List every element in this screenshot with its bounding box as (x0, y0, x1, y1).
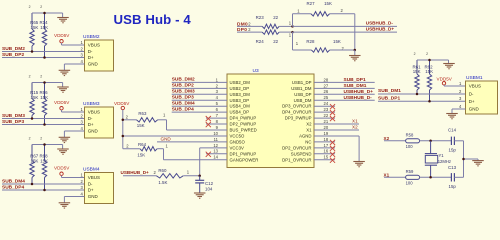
svg-text:NC: NC (305, 139, 311, 144)
wire SUB_DM2 to U3 pin 1 (172, 81, 227, 83)
ground (472, 161, 484, 166)
svg-text:DP2_PWRUP: DP2_PWRUP (230, 122, 257, 127)
net label SUB_DM1 (U3 pin 27) (344, 83, 367, 89)
svg-text:20: 20 (324, 125, 329, 130)
svg-text:X1: X1 (384, 172, 390, 177)
net label USBHUB_D- (366, 21, 394, 26)
wire SUB_DP2 (2, 57, 85, 59)
wire DM0 to R23 (237, 25, 262, 27)
resistor R67 (29, 137, 39, 185)
resistor R65 (29, 5, 39, 52)
junction (428, 59, 431, 62)
resistor R60 (156, 168, 189, 185)
svg-text:22: 22 (273, 15, 278, 20)
net label SUB_DM4 (172, 101, 195, 107)
usb connector USBM4 (81, 167, 114, 204)
svg-text:R58: R58 (406, 132, 414, 137)
net label SUB_DP2 (172, 83, 194, 89)
wire DP0 to R24 (237, 31, 262, 33)
net label DM0 (237, 21, 251, 27)
svg-text:2: 2 (40, 75, 42, 79)
svg-text:D-: D- (469, 92, 474, 97)
svg-text:2: 2 (29, 137, 31, 141)
wire R64 to U3 pin 14 (GANGPOWER) (157, 149, 227, 160)
svg-text:15K: 15K (324, 1, 332, 6)
net label SUB_DP3 (2, 119, 24, 125)
svg-text:Y1: Y1 (439, 153, 445, 158)
pin 4 stub (77, 63, 85, 65)
power port VDD5V (rail) (114, 101, 130, 149)
svg-text:15p: 15p (449, 147, 457, 152)
net label X2 (384, 136, 390, 141)
junction (429, 176, 432, 179)
svg-text:BUS_PWRED: BUS_PWRED (230, 128, 257, 133)
wire U3 pin 20 (314, 129, 359, 131)
net label SUB_DP3 (172, 95, 194, 101)
junction (31, 50, 34, 53)
svg-text:D+: D+ (88, 55, 94, 60)
junction (416, 93, 419, 96)
svg-text:C12: C12 (205, 181, 214, 186)
svg-text:USB_DP: USB_DP (294, 92, 311, 97)
net label SUB_DM2 (2, 46, 25, 52)
wire SUB_DP4 to U3 pin 6 (172, 111, 227, 113)
svg-text:VDD5V: VDD5V (54, 33, 70, 38)
resistor R68 (40, 137, 49, 191)
resistor R63 (126, 111, 166, 128)
U3 left pin numbers 1-14 (213, 77, 218, 159)
net label SUB_DP4 (2, 184, 24, 190)
junction node (198, 175, 201, 178)
net label DP0 (237, 27, 251, 33)
wire U3 pin 26 (314, 93, 375, 95)
svg-text:17: 17 (324, 143, 329, 148)
wire R59 to C13 (420, 176, 452, 178)
svg-text:SUB_DP2: SUB_DP2 (172, 83, 194, 89)
svg-text:26: 26 (324, 89, 329, 94)
U3 pin 7 no-connect stub (206, 116, 227, 121)
usb connector USBM1 (459, 75, 498, 114)
svg-text:VBUS: VBUS (88, 110, 100, 115)
net label X2 (U3 pin 20) (352, 125, 358, 130)
svg-text:SUB_DM2: SUB_DM2 (172, 77, 195, 83)
svg-text:USB3_DP: USB3_DP (230, 98, 250, 103)
svg-text:R59: R59 (406, 169, 414, 174)
U3 pin 13 no-connect stub (206, 152, 227, 157)
ground (446, 114, 458, 119)
svg-text:R63: R63 (138, 111, 147, 116)
svg-text:15K: 15K (413, 69, 421, 74)
svg-text:R23: R23 (256, 15, 265, 20)
svg-text:27: 27 (324, 83, 329, 88)
svg-text:15K: 15K (31, 95, 39, 100)
wire GND pin to ground (452, 109, 466, 114)
wire resistor tops to ground (32, 83, 63, 88)
junction (429, 140, 432, 143)
ground (59, 70, 71, 75)
wire U3 pin 21 (314, 123, 359, 125)
svg-text:15K: 15K (40, 25, 48, 30)
svg-text:D-: D- (88, 182, 93, 187)
net label SUB_DM1 (378, 88, 401, 94)
svg-text:USB_DM: USB_DM (294, 98, 312, 103)
svg-text:22: 22 (273, 39, 278, 44)
svg-text:100: 100 (406, 144, 414, 149)
capacitor C14 (448, 127, 457, 152)
svg-text:SUB_DM4: SUB_DM4 (172, 101, 195, 107)
resistor R66 (40, 75, 49, 125)
svg-text:VDD5V: VDD5V (114, 101, 130, 106)
svg-text:15K: 15K (137, 123, 145, 128)
svg-text:15: 15 (324, 155, 329, 160)
junction (43, 81, 46, 84)
wire SUB_DM4 to U3 pin 5 (172, 105, 227, 107)
svg-text:USB4_DP: USB4_DP (230, 110, 250, 115)
net label USBHUB_D+ (121, 170, 157, 175)
wire SUB_DM3 (2, 118, 85, 120)
resistor R58 (406, 132, 420, 149)
wire SUB_DP3 (2, 124, 85, 126)
power port VDD5V (54, 166, 70, 178)
svg-text:SUB_DM1: SUB_DM1 (378, 88, 401, 94)
svg-text:SUB_DM3: SUB_DM3 (172, 89, 195, 95)
wire R58 to C14 (420, 140, 452, 142)
resistor R62 (425, 52, 434, 101)
wire GND to U3 pin 11 (157, 141, 227, 143)
wire USBHUB_D+ to R60 (123, 175, 156, 177)
wire R28 to ground rail (330, 49, 355, 51)
wire VDD5V rail to R64 (123, 148, 140, 150)
wire VBUS (62, 177, 85, 179)
net label X1 (384, 172, 390, 177)
U3 pin 17 no-connect stub (314, 146, 335, 151)
U3 pin 15 no-connect stub (314, 158, 335, 163)
wire SUB_DP4 (2, 189, 85, 191)
junction (354, 49, 357, 52)
power port VDD5V (437, 76, 453, 86)
usb connector USBM2 (81, 34, 114, 71)
junction (43, 56, 46, 59)
net label USBHUB_D- (U3 pin 25) (344, 95, 373, 101)
svg-text:15K: 15K (425, 69, 433, 74)
svg-text:VDD5V: VDD5V (437, 76, 453, 81)
svg-text:X1: X1 (306, 128, 312, 133)
svg-text:100: 100 (406, 181, 414, 186)
wire SUB_DM1 (378, 93, 466, 95)
svg-text:DP1_OVRCUR: DP1_OVRCUR (282, 157, 311, 162)
junction (122, 119, 125, 122)
wire X1 to R59 (384, 176, 406, 178)
svg-text:GND: GND (88, 129, 99, 134)
U3 right pin numbers 28-15 (324, 77, 329, 159)
wire R60 to node (183, 175, 200, 177)
U3 pin 16 no-connect stub (314, 152, 335, 157)
wire C13 to rail (454, 176, 463, 178)
svg-text:1.5K: 1.5K (158, 180, 167, 185)
svg-text:16: 16 (324, 149, 329, 154)
wire C14 to rail (454, 140, 463, 142)
svg-text:USBHUB_D+: USBHUB_D+ (121, 170, 150, 175)
svg-text:15K: 15K (40, 159, 48, 164)
svg-text:SUB_DP4: SUB_DP4 (172, 106, 194, 112)
wire resistor tops to ground (32, 145, 63, 150)
svg-text:VBUS: VBUS (469, 84, 481, 89)
svg-text:15K: 15K (333, 39, 341, 44)
junction (122, 135, 125, 138)
wire X2 to R58 (384, 140, 406, 142)
net label SUB_DM3 (172, 89, 195, 95)
wire GND pin to ground (64, 64, 76, 70)
net label SUB_DP4 (172, 106, 194, 112)
svg-text:15K: 15K (31, 159, 39, 164)
svg-text:2: 2 (29, 75, 31, 79)
svg-text:104: 104 (205, 186, 213, 191)
net label SUB_DP2 (2, 52, 24, 58)
wire U3 pin 12 (VCC3V) down to C12 node (200, 148, 227, 176)
svg-text:D+: D+ (88, 122, 94, 127)
svg-text:VCC3V: VCC3V (230, 145, 244, 150)
svg-text:D-: D- (88, 116, 93, 121)
svg-text:2: 2 (426, 52, 428, 56)
svg-text:2: 2 (414, 52, 416, 56)
svg-text:USBM1: USBM1 (466, 75, 483, 81)
svg-text:21: 21 (324, 119, 329, 124)
wire rail to ground (464, 159, 479, 161)
svg-text:R60: R60 (158, 168, 167, 173)
svg-text:SUSPEND: SUSPEND (291, 151, 312, 156)
ground (57, 149, 69, 154)
title USB Hub - 4 (114, 12, 192, 27)
wire U3 pin 19 (AGND) to ground (314, 136, 359, 162)
U3 pin 18 no-connect stub (314, 140, 335, 145)
wire USBHUB_D+ (293, 31, 398, 33)
resistor R15 (29, 75, 39, 119)
resistor R23 (256, 15, 292, 28)
wire SUB_DP2 to U3 pin 2 (172, 87, 227, 89)
svg-text:15K: 15K (31, 25, 39, 30)
ground (443, 64, 455, 69)
svg-text:X2: X2 (384, 136, 390, 141)
svg-text:USB2_DM: USB2_DM (230, 80, 251, 85)
junction (31, 183, 34, 186)
svg-text:USBM2: USBM2 (83, 34, 100, 40)
svg-text:R24: R24 (256, 39, 265, 44)
wire rail (463, 141, 465, 178)
svg-text:12MHz: 12MHz (438, 159, 451, 164)
svg-text:U3: U3 (253, 68, 259, 74)
svg-text:GND: GND (469, 107, 480, 112)
svg-text:13: 13 (213, 149, 218, 154)
svg-text:USBHUB_D+: USBHUB_D+ (366, 26, 395, 31)
svg-text:C14: C14 (448, 127, 457, 132)
net label USBHUB_D+ (U3 pin 26) (344, 89, 374, 95)
svg-text:USB1_DP: USB1_DP (292, 80, 312, 85)
pin 4 stub (77, 196, 85, 198)
svg-text:R28: R28 (306, 39, 315, 44)
junction (462, 158, 465, 161)
usb connector USBM3 (81, 101, 114, 138)
power port VDD5V (54, 33, 70, 45)
resistor R59 (406, 169, 420, 186)
svg-text:USB3_DM: USB3_DM (230, 92, 251, 97)
svg-text:GND: GND (161, 136, 172, 141)
junction (43, 12, 46, 15)
wire R24 to node (279, 31, 292, 33)
wire GND pin to ground (64, 131, 76, 137)
svg-text:X2: X2 (306, 122, 312, 127)
wire VBUS (444, 85, 466, 87)
ground (194, 193, 206, 198)
svg-text:USB2_DP: USB2_DP (230, 86, 250, 91)
wire VDD5V rail to R63 (123, 119, 137, 121)
svg-text:GND5O: GND5O (230, 139, 246, 144)
svg-text:USBHUB_D-: USBHUB_D- (366, 21, 394, 26)
svg-text:USB Hub - 4: USB Hub - 4 (114, 12, 192, 27)
wire resistor tops to ground (32, 13, 63, 18)
op IC U3 body (227, 68, 314, 168)
svg-text:25: 25 (324, 95, 329, 100)
svg-text:GND: GND (88, 62, 99, 67)
wire U3 pin 25 (314, 99, 375, 101)
ground (59, 137, 71, 142)
svg-text:19: 19 (324, 131, 329, 136)
svg-text:28: 28 (324, 77, 329, 82)
svg-text:12: 12 (213, 143, 218, 148)
pin 4 stub (77, 130, 85, 132)
resistor R61 (413, 52, 422, 94)
wire SUB_DM4 (2, 183, 85, 185)
svg-text:24: 24 (324, 101, 329, 106)
svg-text:15K: 15K (137, 152, 145, 157)
svg-text:D+: D+ (469, 99, 475, 104)
svg-text:DP2_OVRCUR: DP2_OVRCUR (282, 145, 311, 150)
wire U3 pin 28 (314, 81, 375, 83)
wire U3 pin 27 (314, 87, 375, 89)
svg-text:VDD5V: VDD5V (54, 166, 70, 171)
svg-text:AGND: AGND (299, 133, 311, 138)
wire SUB_DM2 (2, 51, 85, 53)
svg-text:10: 10 (213, 131, 218, 136)
power port VDD5V (54, 100, 70, 112)
ground (353, 162, 365, 167)
net label SUB_DM3 (2, 113, 25, 119)
net label SUB_DM4 (2, 178, 25, 184)
resistor R24 (256, 30, 292, 44)
svg-text:14: 14 (213, 155, 218, 160)
svg-text:15p: 15p (449, 184, 457, 189)
svg-text:15K: 15K (40, 95, 48, 100)
svg-text:C13: C13 (448, 165, 457, 170)
resistor R14 (40, 5, 49, 58)
wire USBHUB_D- (293, 25, 398, 27)
svg-text:SUB_DP3: SUB_DP3 (172, 95, 194, 101)
svg-text:DP3_PWRUP: DP3_PWRUP (285, 116, 312, 121)
svg-text:DP3_OVRCUR: DP3_OVRCUR (282, 104, 311, 109)
junction (291, 25, 294, 28)
svg-text:D-: D- (88, 49, 93, 54)
wire R23 to node (279, 25, 292, 27)
junction (43, 123, 46, 126)
svg-text:VBUS: VBUS (88, 43, 100, 48)
svg-text:18: 18 (324, 137, 329, 142)
wire resistor tops to ground (417, 60, 449, 64)
wire U3 pin 10 (VCC5O) to VDD5V rail (123, 135, 227, 137)
U3 pin 23 no-connect stub (314, 110, 335, 115)
wire to ground (354, 50, 356, 56)
svg-text:GND: GND (88, 194, 99, 199)
junction (291, 31, 294, 34)
capacitor C13 (448, 165, 457, 189)
svg-text:DP4_PWRUP: DP4_PWRUP (230, 116, 257, 121)
net label X1 (U3 pin 21) (352, 119, 358, 124)
net label SUB_DP1 (U3 pin 28) (344, 77, 366, 83)
wire SUB_DP1 (378, 100, 466, 102)
svg-text:VDD5V: VDD5V (54, 100, 70, 105)
svg-text:R64: R64 (138, 142, 147, 147)
wire SUB_DM3 to U3 pin 3 (172, 93, 227, 95)
net label USBHUB_D+ (366, 26, 395, 31)
junction (428, 100, 431, 103)
crystal Y1 12MHz (425, 141, 451, 178)
wire R27 to ground rail (330, 14, 355, 50)
net label SUB_DM2 (172, 77, 195, 83)
wire VBUS (62, 111, 85, 113)
svg-text:DP4_OVRCUR: DP4_OVRCUR (282, 110, 311, 115)
junction (31, 117, 34, 120)
svg-text:R27: R27 (307, 1, 316, 6)
svg-text:23: 23 (324, 107, 329, 112)
net label SUB_DP1 (378, 95, 400, 101)
svg-text:22: 22 (324, 113, 329, 118)
svg-text:SUB_DP1: SUB_DP1 (378, 95, 400, 101)
ground (57, 87, 69, 92)
wire GND pin to ground (64, 197, 76, 203)
svg-text:2: 2 (40, 5, 42, 9)
svg-text:USB1_DM: USB1_DM (291, 86, 312, 91)
U3 pin 24 no-connect stub (314, 104, 335, 109)
ground (57, 18, 69, 23)
wire node up to R27 (293, 14, 311, 27)
svg-text:DP1_PWRUP: DP1_PWRUP (230, 151, 257, 156)
resistor R27 (297, 1, 343, 16)
wire node down to R28 (293, 32, 312, 50)
svg-text:X2: X2 (352, 125, 358, 130)
svg-text:USBM3: USBM3 (83, 101, 100, 107)
wire U3 pin 9 to R63 (158, 120, 227, 130)
svg-text:2: 2 (29, 5, 31, 9)
capacitor C12 (195, 176, 213, 193)
svg-text:X1: X1 (352, 119, 358, 124)
svg-text:11: 11 (214, 137, 219, 142)
svg-text:GANGPOWER: GANGPOWER (230, 157, 259, 162)
resistor R64 (126, 142, 168, 157)
svg-text:USB4_DM: USB4_DM (230, 104, 251, 109)
ground (349, 56, 361, 61)
svg-text:2: 2 (40, 137, 42, 141)
junction (43, 143, 46, 146)
junction (43, 189, 46, 192)
svg-text:VCC5O: VCC5O (230, 133, 245, 138)
svg-text:USBM4: USBM4 (83, 167, 100, 173)
svg-text:D+: D+ (88, 188, 94, 193)
ground (59, 203, 71, 208)
U3 pin 22 no-connect stub (314, 116, 335, 121)
resistor R28 (296, 39, 345, 52)
svg-text:VBUS: VBUS (88, 175, 100, 180)
U3 pin 8 no-connect stub (206, 122, 227, 127)
wire SUB_DP3 to U3 pin 4 (172, 99, 227, 101)
wire VBUS (62, 44, 85, 46)
